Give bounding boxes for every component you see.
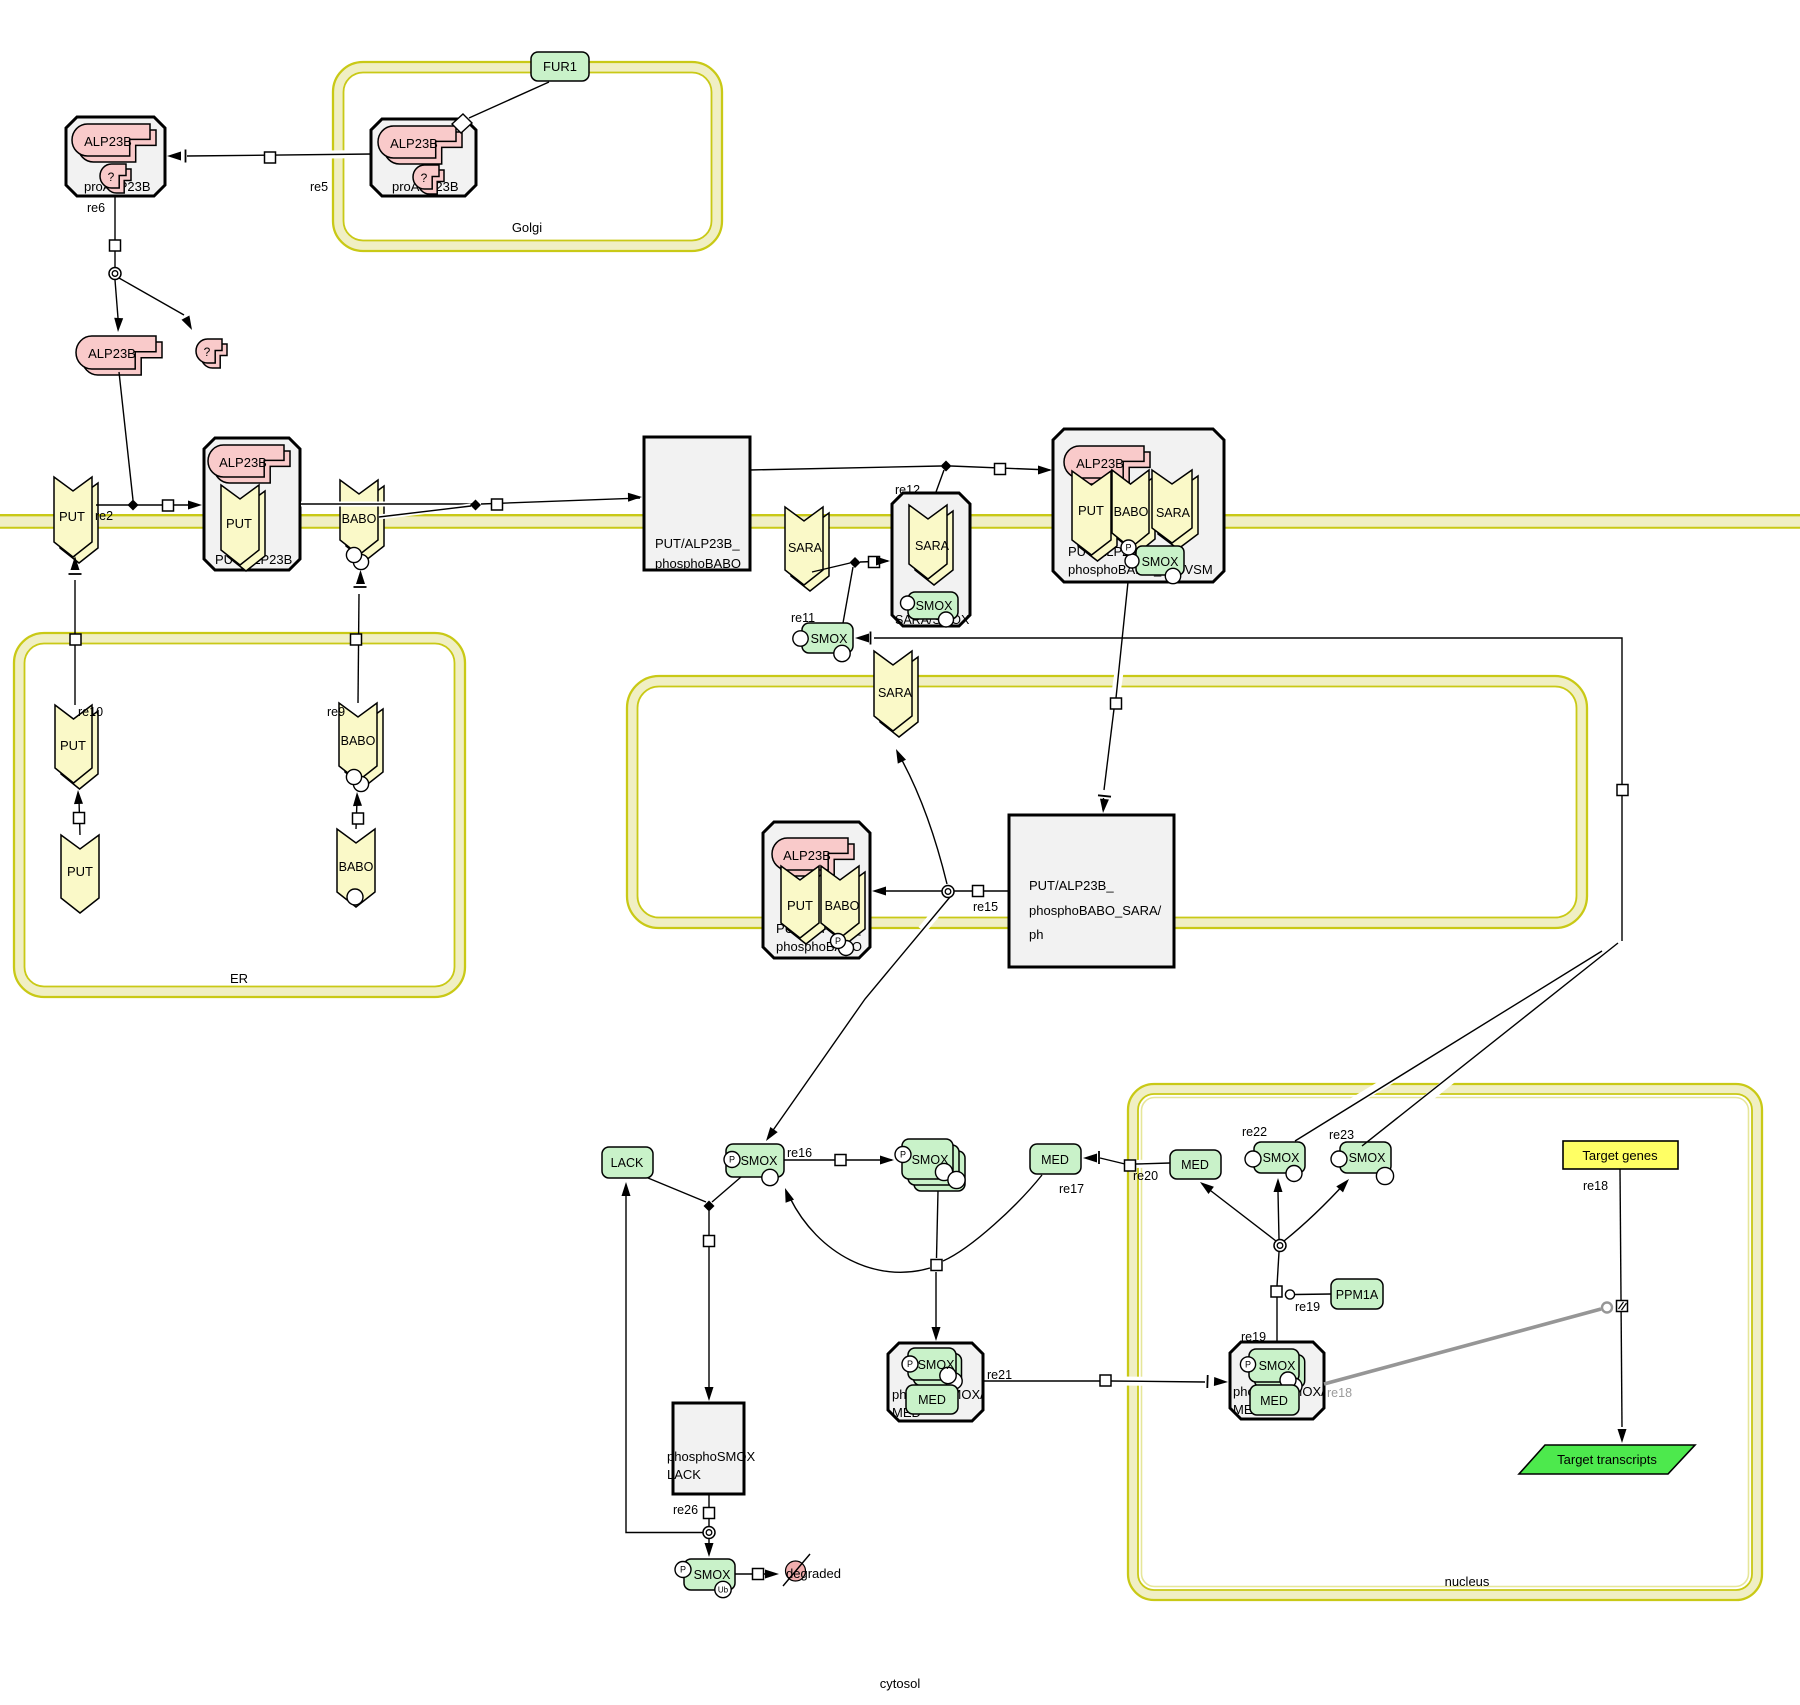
svg-text:?: ?	[108, 170, 115, 184]
complex SARA/SMOX label	[895, 613, 970, 627]
protein ? (in proALP23B complex, Golgi)	[413, 165, 444, 194]
wire re19 to MED	[1202, 1184, 1276, 1241]
process node complex2 to box2	[1111, 698, 1122, 709]
arrow re26 recycle into LACK	[622, 1182, 631, 1196]
svg-text:BABO: BABO	[342, 512, 377, 526]
svg-text:re5: re5	[310, 180, 328, 194]
association node BABO junction	[470, 500, 481, 511]
svg-text:ALP23B: ALP23B	[390, 136, 438, 151]
arrow re23 into cytosol SMOX	[855, 632, 871, 645]
process node re26 upper	[704, 1236, 715, 1247]
wire re2	[96, 504, 197, 506]
wire re9 upper	[358, 594, 359, 703]
svg-text:P: P	[900, 1150, 906, 1160]
process node BABO association	[492, 499, 503, 510]
protein ALP23B (in endosome complex)	[772, 838, 854, 876]
wire BABO to junction	[379, 506, 471, 517]
wire re19 to SMOX n1	[1278, 1192, 1279, 1239]
svg-text:BABO: BABO	[339, 860, 374, 874]
complex PUT/ALP23B_phosphoBABO_SARA/ph label	[1029, 878, 1162, 942]
arrow re15 into SARA	[896, 749, 906, 764]
wire re20	[1100, 1158, 1170, 1164]
arrow re6 to ?	[182, 316, 193, 331]
svg-text:re17: re17	[1059, 1182, 1084, 1196]
svg-text:ALP23B: ALP23B	[219, 455, 267, 470]
wire re19 main	[1277, 1252, 1279, 1342]
wire FUR1 catalysis	[469, 82, 549, 118]
receptor SARA (plasma membrane)	[785, 507, 829, 591]
protein LACK	[602, 1147, 653, 1178]
arrow re19 into SMOX n1	[1274, 1178, 1283, 1192]
arrow re10 into ER PUT	[74, 790, 83, 804]
protein phosphoSMOX (in cytosol complex)	[902, 1348, 962, 1389]
association node re11	[850, 557, 861, 568]
svg-text:SMOX: SMOX	[741, 1154, 778, 1168]
RNA Target transcripts	[1519, 1445, 1695, 1474]
wire SARA to re11 junction	[812, 563, 850, 572]
protein SMOX multimer (cytosol)	[895, 1139, 965, 1191]
protein MED (cytosol)	[1030, 1144, 1081, 1174]
receptor PUT (in complex2)	[1072, 471, 1117, 561]
state P of BABO (in complex2)	[1121, 540, 1136, 555]
arrow re12 into complex2	[1038, 466, 1052, 475]
svg-text:ALP23B: ALP23B	[1076, 456, 1124, 471]
wire re15 to phosphoSMOX	[769, 897, 950, 1136]
arrow re18 into Target transcripts	[1618, 1429, 1627, 1443]
svg-text:SMOX: SMOX	[1263, 1151, 1300, 1165]
complex PUT/ALP23B_phosphoBABO (endosome) label	[776, 921, 862, 954]
state P of BABO (endosome complex)	[831, 934, 854, 956]
compartment cytosol label	[880, 1676, 921, 1691]
svg-text:re19: re19	[1241, 1330, 1266, 1344]
svg-text:MED: MED	[1260, 1394, 1288, 1408]
svg-text:?: ?	[204, 345, 211, 359]
degraded symbol	[783, 1554, 810, 1586]
svg-text:re12: re12	[895, 483, 920, 497]
wire re10 lower	[79, 800, 80, 835]
svg-text:Target transcripts: Target transcripts	[1557, 1452, 1657, 1467]
svg-text:P: P	[729, 1155, 735, 1165]
complex proALP23B (Golgi) label	[392, 179, 459, 194]
wire SARA/SMOX to re12 junction	[936, 470, 944, 492]
protein FUR1	[531, 52, 589, 81]
svg-text:ph: ph	[1029, 927, 1043, 942]
complex phosphoSMOX/MED (cytosol)	[888, 1343, 983, 1421]
dissociation node re19	[1274, 1240, 1286, 1252]
process node re2	[163, 500, 174, 511]
protein MED (in cytosol complex)	[906, 1385, 958, 1414]
svg-text:cytosol: cytosol	[880, 1676, 921, 1691]
svg-text:SMOX: SMOX	[1142, 555, 1179, 569]
wire re23 translocation	[874, 638, 1622, 1146]
svg-text:P: P	[907, 1359, 913, 1369]
wire re6 to ALP23B	[115, 280, 118, 318]
process node re15	[973, 886, 984, 897]
complex phosphoSMOX/LACK (box)	[673, 1403, 744, 1494]
svg-text:Golgi: Golgi	[512, 220, 542, 235]
unknown catalysis diamond FUR1	[452, 114, 472, 133]
protein ? (free, cytosol)	[196, 339, 227, 368]
svg-text:re15: re15	[973, 900, 998, 914]
svg-text:phosphoSMOX: phosphoSMOX	[667, 1449, 755, 1464]
process node re26 lower	[704, 1508, 715, 1519]
svg-text:SMOX: SMOX	[1259, 1359, 1296, 1373]
svg-text:ALP23B: ALP23B	[783, 848, 831, 863]
process node re6	[110, 240, 121, 251]
svg-text:MED: MED	[1181, 1158, 1209, 1172]
receptor PUT (ER source)	[61, 835, 99, 913]
complex PUT/ALP23B_phosphoBABO_SARA/SMOX label	[1068, 544, 1213, 577]
association node re12	[941, 461, 952, 472]
complex phosphoSMOX/MED (cytosol) label	[892, 1387, 984, 1420]
wire re17 from multimer	[937, 1191, 939, 1258]
gene Target genes	[1563, 1141, 1678, 1169]
wire re15 to SARA	[898, 753, 947, 884]
association node re26	[704, 1201, 715, 1212]
process node re9 lower	[353, 813, 364, 824]
svg-text:?: ?	[421, 171, 428, 185]
wire junction to box1	[481, 498, 640, 504]
plasma membrane	[0, 515, 1800, 528]
svg-text:SARA: SARA	[915, 539, 950, 553]
svg-text:VSM: VSM	[1185, 562, 1213, 577]
svg-text:P: P	[1245, 1360, 1251, 1370]
wire re26 to SMOX-Ub	[708, 1539, 710, 1553]
protein ALP23B (in proALP23B complex, cytosol)	[72, 124, 156, 162]
wire re22 translocation	[1295, 951, 1602, 1141]
protein ALP23B (in PUT/ALP23B)	[208, 445, 290, 483]
wire re26 junction to box3	[708, 1211, 710, 1398]
complex phosphoSMOX/MED (nucleus) label	[1233, 1384, 1325, 1417]
process node re10 lower	[74, 813, 85, 824]
arrow re17 into phosphoSMOX	[785, 1188, 794, 1203]
svg-text:MED: MED	[918, 1393, 946, 1407]
compartment endosome	[627, 676, 1587, 928]
wire re6 to ?	[119, 278, 184, 315]
arrow re11 into SARA/SMOX	[876, 557, 890, 566]
svg-text:ALP23B: ALP23B	[88, 346, 136, 361]
svg-text:Target genes: Target genes	[1582, 1148, 1658, 1163]
svg-text:PUT/ALP23B_: PUT/ALP23B_	[1029, 878, 1114, 893]
wire re9 lower	[356, 800, 357, 829]
svg-text:SMOX: SMOX	[1349, 1151, 1386, 1165]
reaction label re18 (gray)	[1327, 1386, 1352, 1400]
svg-text:SMOX: SMOX	[916, 599, 953, 613]
svg-text:re19: re19	[1295, 1300, 1320, 1314]
arrow re26 into box3	[705, 1387, 714, 1401]
protein ALP23B (free, cytosol)	[76, 336, 162, 375]
svg-text:phosphoBABO_SARA/: phosphoBABO_SARA/	[1029, 903, 1162, 918]
svg-text:re23: re23	[1329, 1128, 1354, 1142]
receptor PUT (in PUT/ALP23B)	[221, 485, 265, 571]
svg-text:P: P	[1125, 543, 1131, 553]
dissociation node re6	[109, 268, 121, 280]
association node re2	[128, 500, 139, 511]
wire re17 to phosphoSMOX	[790, 1198, 930, 1272]
wire re5 (Golgi complex to cytosol complex)	[187, 154, 372, 156]
receptor BABO (ER)	[339, 703, 383, 792]
wire LACK to re26 junction	[648, 1178, 706, 1202]
compartment nucleus	[1128, 1084, 1762, 1600]
svg-text:re11: re11	[791, 611, 815, 625]
svg-text:BABO: BABO	[825, 899, 860, 913]
wire re18 trigger	[1324, 1309, 1601, 1384]
receptor PUT (in endosome complex)	[781, 866, 825, 944]
protein SMOX (in complex2)	[1125, 546, 1184, 584]
compartment nucleus label	[1445, 1574, 1490, 1589]
compartment Golgi	[333, 62, 722, 251]
svg-text:re20: re20	[1133, 1169, 1158, 1183]
arrow re9 into ER BABO	[353, 792, 362, 806]
wire re19 to SMOX n2	[1284, 1182, 1346, 1241]
arrow into box2	[1098, 795, 1111, 813]
process node re16	[835, 1155, 846, 1166]
complex PUT/ALP23B_phosphoBABO (box)	[644, 437, 750, 570]
process node re21	[1100, 1375, 1111, 1386]
receptor BABO (plasma membrane)	[340, 480, 384, 570]
svg-text:P: P	[835, 936, 841, 946]
complex SARA/SMOX	[892, 493, 970, 626]
dissociation node re26	[703, 1527, 715, 1539]
protein phosphoSMOX (in nucleus complex)	[1240, 1349, 1304, 1394]
protein SMOX (in SARA/SMOX)	[901, 592, 959, 627]
wire re16	[784, 1159, 892, 1161]
svg-text:re10: re10	[78, 705, 103, 719]
svg-text:nucleus: nucleus	[1445, 1574, 1490, 1589]
wire degradation	[735, 1573, 772, 1575]
receptor SARA (in SARA/SMOX)	[909, 505, 953, 585]
wire re17 to complex5	[935, 1272, 937, 1338]
receptor SARA (in complex2)	[1152, 470, 1198, 549]
receptor SARA (endosome)	[874, 651, 918, 737]
process node degradation	[753, 1569, 764, 1580]
process node re19	[1271, 1286, 1282, 1297]
wire complex2 to box2	[1103, 582, 1128, 810]
dissociation node re15	[942, 886, 954, 898]
receptor PUT (plasma membrane)	[54, 477, 98, 563]
protein PPM1A	[1331, 1279, 1383, 1309]
arrow re19 into SMOX n2	[1336, 1179, 1349, 1192]
svg-text:P: P	[680, 1565, 686, 1575]
process node re10 upper	[70, 634, 81, 645]
complex PUT/ALP23B	[204, 438, 300, 570]
arrow re21 into nucleus complex	[1207, 1375, 1228, 1388]
svg-text:re16: re16	[787, 1146, 812, 1160]
process node re9 upper	[351, 634, 362, 645]
receptor BABO (in endosome complex)	[821, 866, 865, 944]
protein SMOX (nucleus, re23)	[1331, 1142, 1394, 1185]
svg-text:FUR1: FUR1	[543, 59, 577, 74]
wire re10 upper	[74, 580, 76, 705]
complex PUT/ALP23B_phosphoBABO (endosome)	[763, 822, 870, 958]
svg-text:re6: re6	[87, 201, 105, 215]
svg-text:SMOX: SMOX	[811, 632, 848, 646]
complex phosphoSMOX/MED (nucleus)	[1230, 1342, 1324, 1419]
svg-text:SARA: SARA	[878, 686, 913, 700]
arrow re2 into PUT/ALP23B	[188, 501, 202, 510]
svg-text:BABO: BABO	[1114, 505, 1149, 519]
svg-text:PUT/ALP23B_: PUT/ALP23B_	[655, 536, 740, 551]
protein phosphoSMOX-Ub	[675, 1559, 735, 1598]
compartment ER	[14, 633, 465, 997]
complex PUT/ALP23B_phosphoBABO_SARA/ph (box)	[1009, 815, 1174, 967]
arrow re16 into multimer	[880, 1156, 894, 1165]
svg-text:phosphoBABO: phosphoBABO	[655, 556, 741, 571]
wire phosphoSMOX to re26 junction	[712, 1177, 741, 1202]
protein MED (in nucleus complex)	[1250, 1385, 1299, 1415]
svg-text:PUT: PUT	[60, 738, 86, 753]
wire ALP23B to re2 junction	[119, 372, 133, 500]
svg-text:re2: re2	[95, 509, 113, 523]
compartment Golgi label	[512, 220, 542, 235]
svg-text:LACK: LACK	[667, 1467, 701, 1482]
wire box1 to re12 junction	[750, 466, 941, 470]
complex PUT/ALP23B_phosphoBABO label	[655, 536, 741, 571]
process node re23	[1617, 785, 1628, 796]
catalysis circle PPM1A	[1285, 1290, 1294, 1299]
svg-text:SMOX: SMOX	[918, 1358, 955, 1372]
arrow re6 to ALP23B	[114, 318, 123, 332]
protein MED (nucleus)	[1170, 1150, 1221, 1179]
svg-text:re22: re22	[1242, 1125, 1267, 1139]
receptor BABO (ER source)	[337, 829, 375, 907]
svg-text:PUT: PUT	[787, 898, 813, 913]
svg-text:LACK: LACK	[611, 1156, 644, 1170]
arrow into box1	[628, 493, 642, 502]
complex proALP23B label	[84, 179, 151, 194]
arrow re17 into complex5	[932, 1327, 941, 1341]
complex proALP23B (Golgi)	[371, 119, 476, 196]
wire re11 junction to SARA/SMOX	[860, 561, 888, 562]
wire re6 main	[114, 196, 116, 267]
svg-text:re9: re9	[327, 705, 345, 719]
process node re11	[869, 557, 880, 568]
svg-text:SMOX: SMOX	[912, 1153, 949, 1167]
arrow re10 into membrane PUT	[69, 556, 82, 574]
svg-text:PPM1A: PPM1A	[1336, 1288, 1379, 1302]
process node re5	[265, 152, 276, 163]
svg-text:ER: ER	[230, 971, 248, 986]
arrow re26 into SMOX-Ub	[705, 1543, 714, 1557]
process node re17	[931, 1260, 942, 1271]
trigger circle re18	[1602, 1303, 1612, 1313]
wire PPM1A catalysis	[1295, 1293, 1331, 1296]
svg-text:re18: re18	[1583, 1179, 1608, 1193]
complex PUT/ALP23B_phosphoBABO_SARA/SMOX	[1053, 429, 1224, 582]
receptor PUT (ER)	[55, 705, 98, 789]
complex phosphoSMOX/LACK label	[667, 1449, 755, 1482]
protein phosphoSMOX (cytosol)	[724, 1144, 784, 1186]
svg-text:re18: re18	[1327, 1386, 1352, 1400]
wire re17 from MED	[943, 1175, 1042, 1261]
svg-text:SMOX: SMOX	[694, 1568, 731, 1582]
arrow re9 into membrane BABO	[354, 570, 367, 587]
compartment ER label	[230, 971, 248, 986]
wire re26 lower	[708, 1494, 710, 1526]
svg-text:degraded: degraded	[786, 1566, 841, 1581]
svg-text:ALP23B: ALP23B	[84, 134, 132, 149]
arrow re19 into nucleus MED	[1200, 1182, 1214, 1194]
svg-text:BABO: BABO	[341, 734, 376, 748]
wire re12 junction to complex2	[951, 466, 1050, 470]
protein ALP23B (in proALP23B complex, Golgi)	[378, 126, 462, 164]
arrow re20 into cytosol MED	[1083, 1151, 1099, 1164]
svg-text:PUT: PUT	[226, 516, 252, 531]
svg-text:re21: re21	[987, 1368, 1012, 1382]
svg-text:re26: re26	[673, 1503, 698, 1517]
svg-text:SARA: SARA	[788, 541, 823, 555]
arrow re5 (transport into cytosol complex)	[167, 150, 186, 163]
complex PUT/ALP23B label	[215, 552, 292, 567]
process node re12	[995, 464, 1006, 475]
transcription node re18	[1617, 1301, 1628, 1312]
wire re21	[983, 1381, 1205, 1382]
wire re18	[1620, 1169, 1622, 1427]
arrow re15 into endosome complex	[872, 887, 886, 896]
protein ? (in proALP23B complex, cytosol)	[100, 164, 131, 193]
arrow re15 into phosphoSMOX	[766, 1127, 778, 1141]
svg-text:PUT: PUT	[67, 864, 93, 879]
protein ALP23B (in complex2)	[1064, 446, 1150, 484]
svg-text:SARA: SARA	[1156, 506, 1191, 520]
wire re15 main	[877, 890, 1009, 892]
arrow degradation	[765, 1570, 779, 1579]
svg-text:PUT: PUT	[59, 509, 85, 524]
degraded label	[786, 1566, 841, 1581]
protein SMOX (nucleus, re22)	[1245, 1142, 1305, 1182]
svg-text:MED: MED	[1041, 1153, 1069, 1167]
protein SMOX (cytosol, near re11)	[793, 623, 853, 662]
svg-text:Ub: Ub	[718, 1585, 729, 1594]
process node re20	[1125, 1160, 1136, 1171]
wire PUT/ALP23B to junction	[301, 502, 475, 507]
svg-text:PUT: PUT	[1078, 503, 1104, 518]
complex proALP23B (cytosol)	[66, 117, 165, 196]
reaction labels	[78, 180, 1608, 1517]
wire SMOX to re11 junction	[843, 567, 853, 623]
wire re26 recycle LACK	[626, 1196, 703, 1533]
receptor BABO (in complex2)	[1112, 470, 1155, 554]
